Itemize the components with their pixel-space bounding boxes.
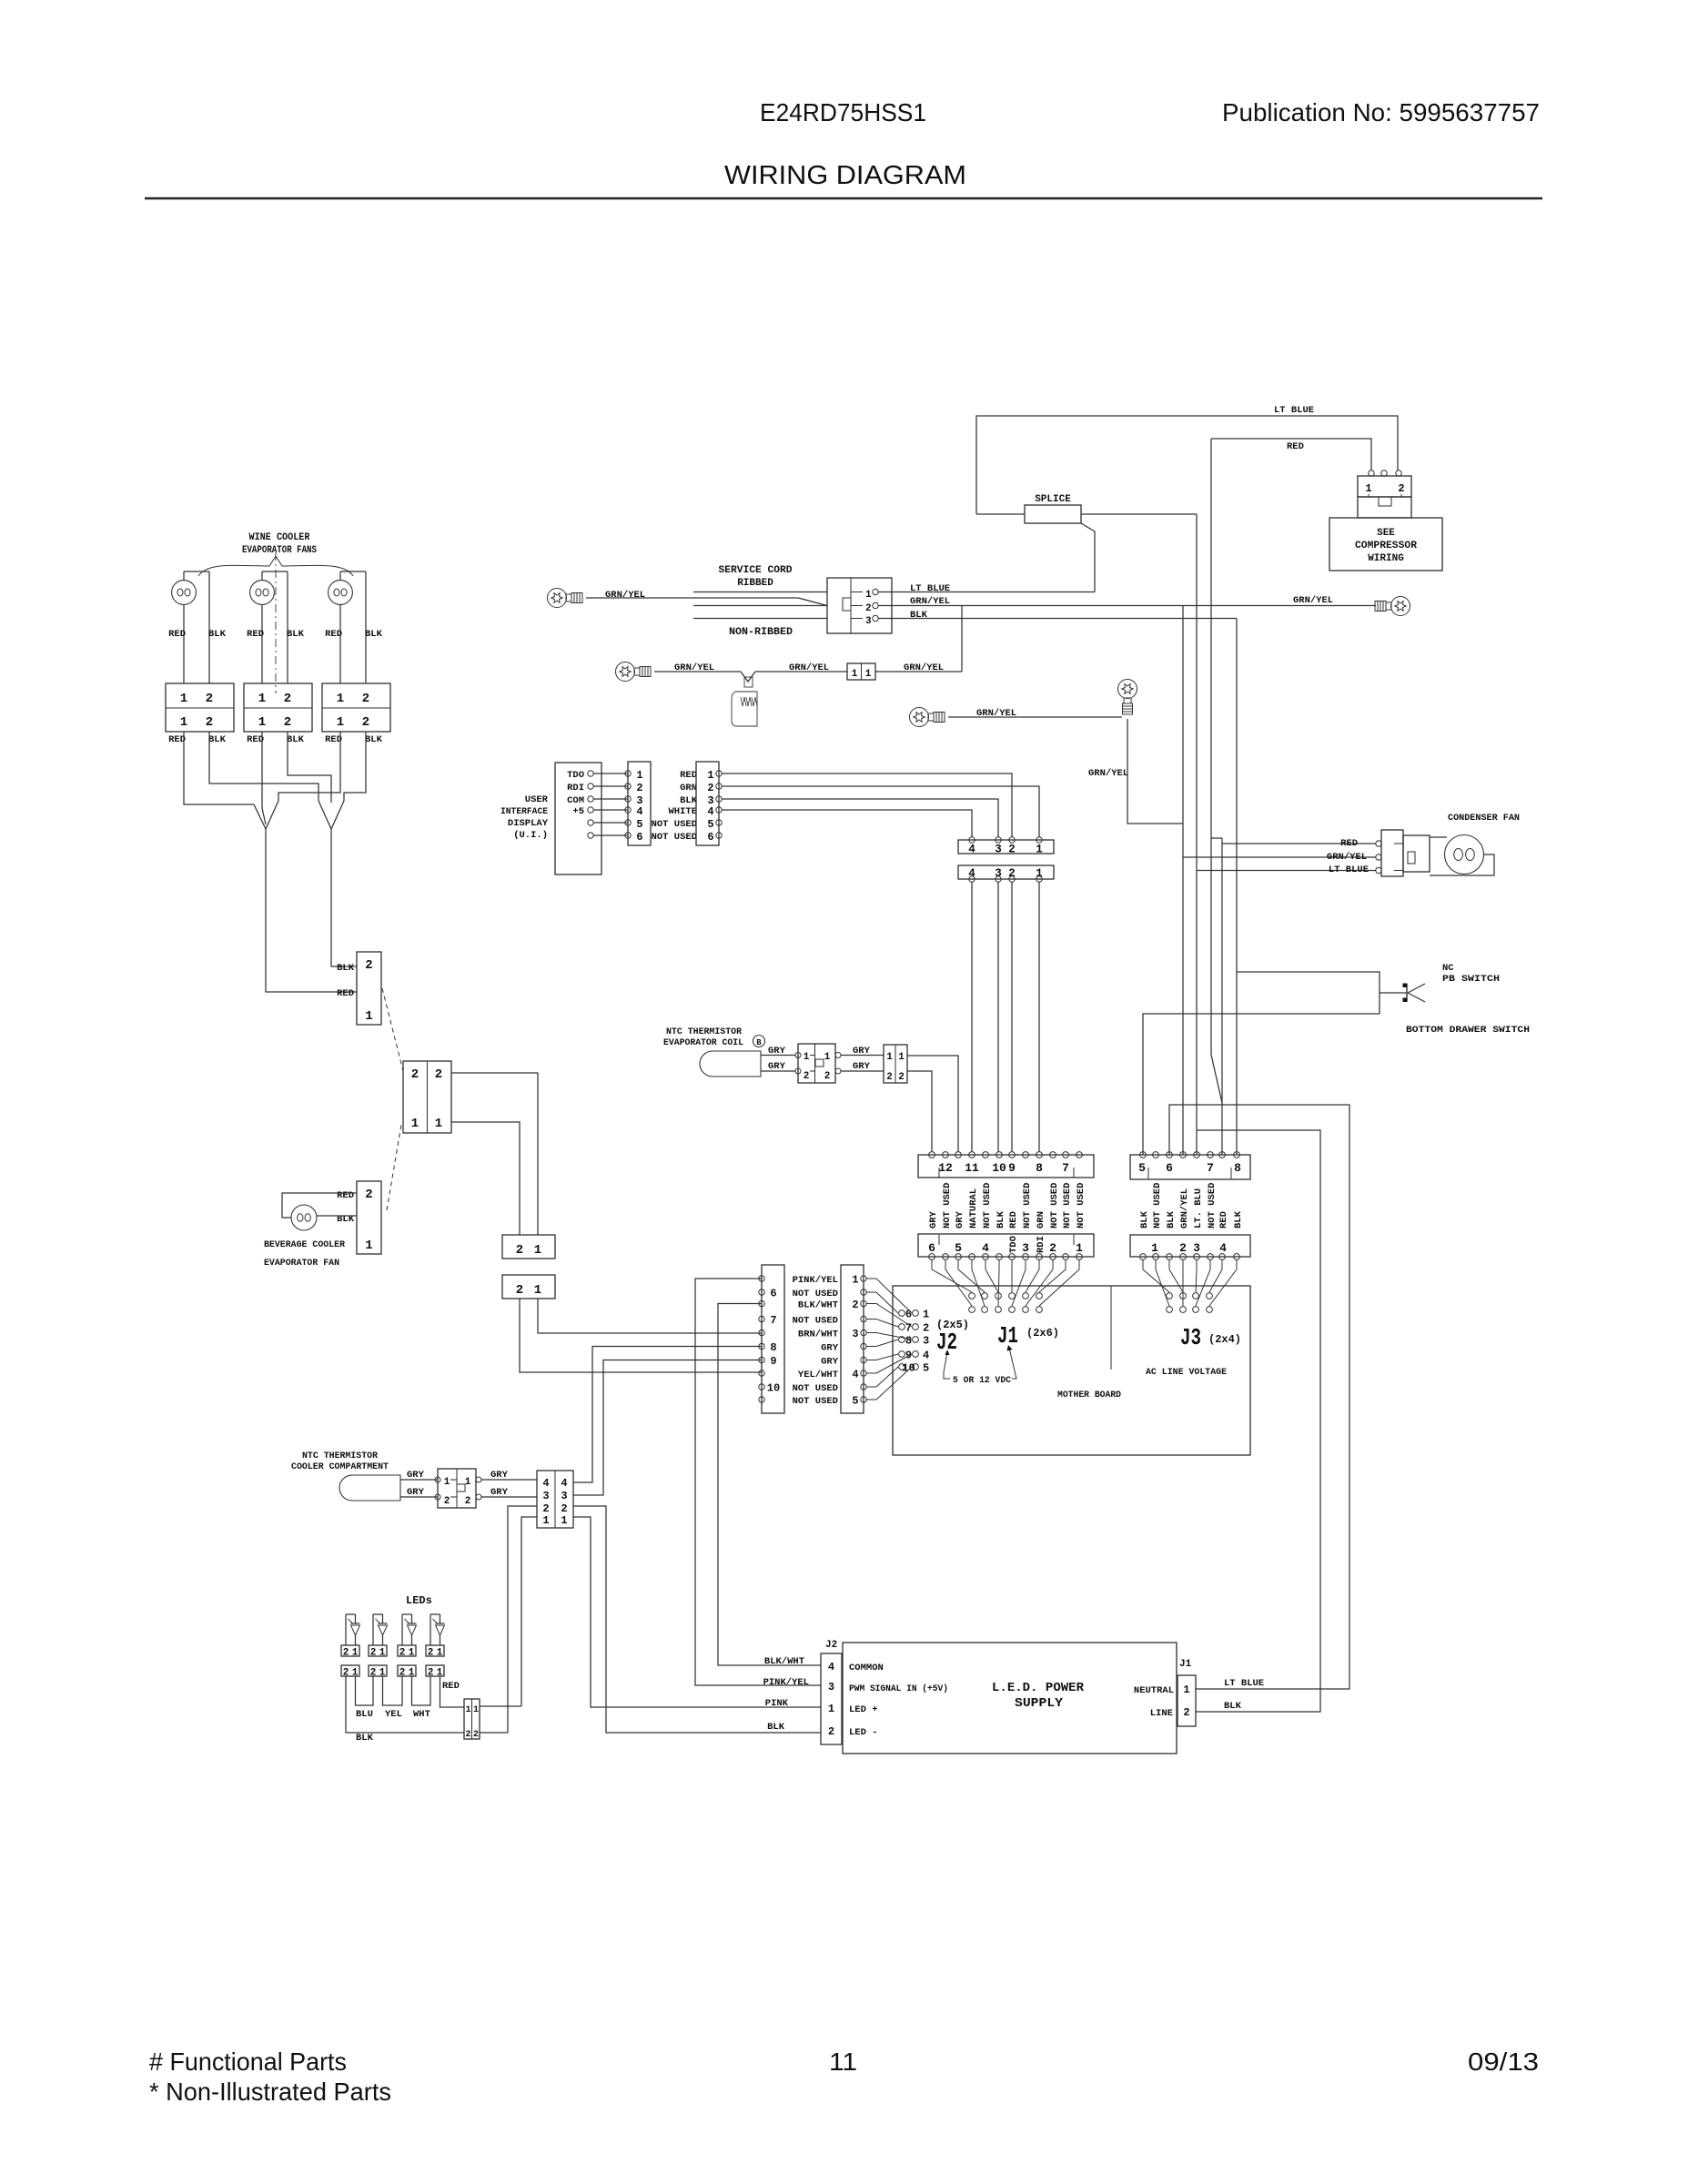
svg-text:1: 1 (411, 1117, 419, 1131)
pin circle J1 strip bottom 6 (996, 1254, 1003, 1260)
svg-text:BLK: BLK (337, 963, 355, 974)
svg-text:NOT USED: NOT USED (1152, 1183, 1163, 1228)
svg-text:2: 2 (923, 1322, 929, 1335)
pin circle J3 header (1207, 1293, 1213, 1299)
svg-text:GRY: GRY (853, 1061, 871, 1072)
thermistor bulb evaporator coil (700, 1051, 761, 1077)
connector 2/1 (beverage cooler fan) (357, 1181, 381, 1254)
wire 4321 right row2 down to LED supply pin2 (573, 1506, 821, 1733)
svg-text:1: 1 (534, 1243, 541, 1258)
pin circle board side (861, 1316, 866, 1321)
connector pair 2-2/1-1 (fan circuit junction) (403, 1061, 451, 1133)
svg-text:BLK: BLK (680, 795, 698, 806)
svg-text:1: 1 (898, 1052, 905, 1063)
wire LED 1-1 to 4321 (480, 1705, 521, 1707)
wire UI RED to pin2 (722, 773, 1012, 837)
svg-text:10: 10 (992, 1161, 1006, 1175)
wire strip to J1 header (1039, 1260, 1066, 1293)
svg-text:BLK: BLK (1139, 1210, 1150, 1228)
svg-text:2: 2 (473, 1730, 479, 1740)
pin circle J1 strip bottom 8 (1023, 1254, 1029, 1260)
svg-text:1: 1 (365, 1009, 372, 1024)
pin circle J1 strip top 3 (955, 1152, 962, 1158)
connector pair CN2 (fan 2) (244, 683, 312, 732)
svg-text:2: 2 (365, 958, 372, 973)
svg-text:11: 11 (965, 1161, 979, 1175)
wire GRN/YEL condenser branch (1183, 856, 1376, 858)
svg-text:1: 1 (444, 1477, 450, 1488)
UI pin circle (588, 771, 593, 776)
svg-text:+5: +5 (572, 806, 584, 817)
wire UI pin (593, 785, 628, 787)
svg-text:2: 2 (852, 1299, 858, 1311)
pin circle J1 header (1009, 1307, 1016, 1313)
svg-text:6: 6 (928, 1241, 935, 1255)
wire UI BLK to pin3 (722, 799, 998, 837)
wire LED RED to 1-1 (440, 1676, 465, 1707)
svg-text:YEL/WHT: YEL/WHT (798, 1370, 838, 1380)
wire strip to J1 header (1011, 1260, 1013, 1293)
svg-text:RED: RED (168, 629, 186, 640)
wire LT BLUE vertical to J3 (1196, 514, 1198, 1155)
pin circle J1 header (1036, 1293, 1043, 1299)
pin circle J1 strip top 1 (929, 1152, 935, 1158)
pin circle J3 strip bottom 2 (1153, 1254, 1159, 1260)
connector 2-1 box A (502, 1235, 555, 1259)
svg-text:1: 1 (1076, 1241, 1083, 1255)
pin circle J1 header (1036, 1307, 1043, 1313)
svg-text:TDO: TDO (1008, 1236, 1019, 1253)
pin circle J2 header 2 (913, 1324, 919, 1330)
svg-text:RDI: RDI (1036, 1236, 1046, 1253)
svg-text:RED: RED (168, 734, 186, 745)
box L.E.D. power supply (843, 1643, 1177, 1754)
pin circle J1 strip bottom 1 (929, 1254, 935, 1260)
svg-text:B: B (756, 1038, 762, 1047)
pin circle J1 header (996, 1307, 1002, 1313)
svg-text:2: 2 (362, 715, 369, 730)
wire LT BLUE top run (976, 416, 1398, 514)
wire 4321 left row2 down to LED 2-2 (508, 1506, 537, 1733)
svg-text:EVAPORATOR COIL: EVAPORATOR COIL (663, 1037, 743, 1048)
svg-text:LINE: LINE (1150, 1708, 1173, 1719)
wire UI GRN to pin1 (722, 786, 1039, 837)
svg-text:2: 2 (516, 1283, 523, 1298)
svg-text:9: 9 (1008, 1161, 1016, 1175)
svg-text:GRN/YEL: GRN/YEL (605, 590, 645, 601)
svg-text:1: 1 (1151, 1241, 1158, 1255)
pin circle J1 strip bottom 2 (943, 1254, 949, 1260)
wire UI harness down to J1 strip (1038, 882, 1040, 1152)
pin circle J1 strip top 10 (1050, 1152, 1056, 1158)
svg-text:(2x6): (2x6) (1026, 1327, 1059, 1340)
svg-text:GRY: GRY (853, 1046, 871, 1057)
svg-text:8: 8 (770, 1341, 776, 1354)
svg-text:WINE COOLER: WINE COOLER (249, 532, 310, 543)
svg-text:GRY: GRY (821, 1343, 839, 1354)
svg-text:RED: RED (1008, 1211, 1019, 1228)
wire BLK bus down to fan connector (331, 829, 357, 966)
svg-text:WHT: WHT (413, 1709, 430, 1720)
svg-text:1: 1 (923, 1309, 929, 1321)
svg-text:PWM SIGNAL IN (+5V): PWM SIGNAL IN (+5V) (849, 1683, 948, 1694)
svg-text:NOT USED: NOT USED (1076, 1183, 1087, 1228)
wire strip to J3 header (1209, 1260, 1237, 1307)
merge funnel BLK (318, 801, 331, 829)
connector LED 2 lower (369, 1665, 387, 1676)
svg-text:BLK: BLK (365, 734, 383, 745)
wire strip to J1 header (1026, 1260, 1039, 1293)
svg-text:NC: NC (1442, 963, 1454, 974)
svg-text:LT BLUE: LT BLUE (1274, 405, 1314, 416)
svg-text:GRY: GRY (490, 1470, 509, 1481)
svg-text:RED: RED (337, 988, 354, 999)
svg-text:1: 1 (828, 1703, 834, 1715)
svg-text:COMPRESSOR: COMPRESSOR (1355, 541, 1417, 551)
pin circle J1 strip top 4 (969, 1152, 975, 1158)
svg-text:1: 1 (886, 1052, 893, 1063)
svg-text:NOT USED: NOT USED (652, 832, 697, 843)
pin circle J1 header (1009, 1293, 1016, 1299)
svg-text:1: 1 (435, 1117, 442, 1131)
wire service ground to connector (586, 597, 798, 599)
svg-text:1: 1 (337, 692, 344, 706)
wire strip to J3 header (1209, 1260, 1222, 1293)
UI pin circle (588, 796, 593, 802)
pin circle LED harness (759, 1370, 764, 1376)
wire BLK fan1 to merge (209, 732, 318, 801)
pin circle 4 (969, 876, 975, 882)
wire connector to J2 header (866, 1279, 912, 1313)
svg-text:NOT USED: NOT USED (1207, 1183, 1218, 1228)
wires GRY thermistor (761, 1055, 795, 1057)
svg-text:NOT USED: NOT USED (793, 1289, 838, 1299)
wire RED drop to J3 (1221, 838, 1223, 1155)
svg-text:5: 5 (923, 1362, 929, 1375)
fan motor M1 (wine cooler evaporator fan 1) (184, 571, 209, 572)
connector J2 board side 10-pin (841, 1265, 864, 1413)
wire UI harness down to J1 strip (997, 882, 999, 1152)
wire RED fan3 to merge (278, 732, 340, 801)
svg-text:1: 1 (465, 1477, 471, 1488)
splice wrap symbol (744, 677, 753, 687)
pin circle J1 header (1023, 1293, 1029, 1299)
wire GRY row to cooler thermistor pin3 (573, 1360, 762, 1496)
svg-text:SERVICE CORD: SERVICE CORD (719, 565, 793, 576)
wire GRN/YEL row3 (948, 716, 1122, 718)
wire vertical screw to bus (1127, 719, 1183, 824)
pin circle J2 header 6 (899, 1310, 905, 1317)
connector strip 1-2-3-4 (1130, 1235, 1250, 1257)
wire GRN/YEL row2 (654, 671, 741, 672)
wire strip to J1 header (998, 1260, 999, 1307)
svg-text:3: 3 (828, 1681, 834, 1694)
svg-text:2: 2 (399, 1648, 406, 1659)
svg-text:PINK/YEL: PINK/YEL (763, 1677, 809, 1688)
svg-text:BLK: BLK (287, 734, 305, 745)
connector LED 1 lower (341, 1665, 359, 1676)
svg-text:6: 6 (1166, 1161, 1173, 1175)
switch NC PB switch (1406, 985, 1408, 1001)
connector cooler thermistor inline (435, 1477, 440, 1482)
svg-text:GRN: GRN (680, 783, 697, 794)
pin circle J1 strip bottom 4 (969, 1254, 975, 1260)
wire strip to J1 header (958, 1260, 985, 1293)
pin circle J2 header 5 (913, 1364, 919, 1370)
svg-text:3: 3 (1022, 1241, 1029, 1255)
svg-text:NOT USED: NOT USED (1022, 1183, 1033, 1228)
connector 1-1/2-2 (884, 1045, 907, 1083)
svg-text:LT. BLU: LT. BLU (1193, 1188, 1204, 1228)
svg-text:5: 5 (707, 818, 713, 831)
connector service cord 3-pin (827, 578, 892, 633)
svg-text:* Non-Illustrated Parts: * Non-Illustrated Parts (149, 2078, 391, 2106)
svg-text:GRN: GRN (1036, 1211, 1046, 1228)
pin circle J3 strip top 8 (1234, 1152, 1240, 1158)
svg-text:2: 2 (542, 1502, 549, 1515)
svg-text:BLK: BLK (365, 629, 383, 640)
wire row2 to bus (875, 671, 962, 672)
wire UI pin (593, 773, 628, 774)
connector 4321 dual (537, 1471, 573, 1528)
wire connector to J2 header (866, 1354, 898, 1360)
pin circle J2 header 7 (899, 1324, 905, 1330)
svg-text:GRN/YEL: GRN/YEL (1088, 768, 1128, 779)
wire junction pin2 to box A (451, 1073, 538, 1235)
connector 4-3-2-1 upper (958, 840, 1054, 854)
pin circle LED harness (759, 1357, 764, 1362)
svg-text:4: 4 (982, 1241, 989, 1255)
wire connector to J2 header (866, 1319, 898, 1328)
svg-text:LT BLUE: LT BLUE (910, 583, 950, 594)
wire BLK vertical to J3 (1236, 619, 1238, 1156)
wire PINK/YEL drop to LED supply (695, 1279, 821, 1685)
wire box B pin1 to J2 connector BRN/WHT (538, 1299, 762, 1333)
UI pin circle (588, 820, 593, 825)
svg-text:RED: RED (1218, 1211, 1229, 1228)
wire UI pin (593, 822, 628, 824)
wire RED condenser branch (1222, 843, 1376, 844)
svg-text:1: 1 (534, 1283, 541, 1298)
svg-text:NOT USED: NOT USED (982, 1183, 993, 1228)
connector LED supply J1 (1178, 1675, 1196, 1726)
svg-text:WIRING DIAGRAM: WIRING DIAGRAM (724, 161, 966, 190)
svg-text:NEUTRAL: NEUTRAL (1134, 1685, 1174, 1696)
wire strip to J1 header (932, 1260, 972, 1293)
wire connector to J2 header (866, 1304, 912, 1328)
svg-text:EVAPORATOR FAN: EVAPORATOR FAN (264, 1258, 339, 1269)
wire PB switch loop (1143, 972, 1380, 1155)
pin circle J3 strip top 6 (1208, 1152, 1214, 1158)
svg-text:3: 3 (923, 1335, 929, 1348)
pin circle J3 strip bottom 4 (1180, 1254, 1187, 1260)
svg-text:2: 2 (370, 1648, 377, 1659)
svg-text:1: 1 (1183, 1683, 1189, 1696)
svg-text:LED +: LED + (849, 1704, 878, 1715)
svg-text:BLK: BLK (1224, 1701, 1242, 1712)
wire strip to J3 header (1196, 1260, 1197, 1293)
svg-text:PINK: PINK (765, 1698, 789, 1709)
svg-text:BLK/WHT: BLK/WHT (764, 1656, 804, 1667)
wire BLK LED supply (1196, 1130, 1320, 1712)
wire connector to J2 header (866, 1367, 898, 1387)
pin circle LED harness (759, 1300, 764, 1306)
brace over fans (198, 556, 353, 576)
connector condenser fan (1376, 841, 1381, 846)
fan motor M2 (wine cooler evaporator fan 2) (262, 571, 288, 572)
svg-text:NOT USED: NOT USED (652, 819, 697, 830)
svg-text:4: 4 (852, 1369, 858, 1381)
svg-text:AC LINE VOLTAGE: AC LINE VOLTAGE (1146, 1367, 1227, 1378)
svg-text:1: 1 (824, 1052, 831, 1063)
svg-text:(U.I.): (U.I.) (513, 830, 548, 841)
svg-text:NOT USED: NOT USED (1062, 1183, 1073, 1228)
pin circle 4 (969, 837, 975, 843)
svg-text:NATURAL: NATURAL (968, 1188, 979, 1228)
svg-text:BLK: BLK (1166, 1210, 1177, 1228)
wire LED BLK to 2-2 (346, 1676, 464, 1733)
svg-text:GRN/YEL: GRN/YEL (1327, 852, 1367, 863)
svg-text:2: 2 (206, 692, 213, 706)
wire strip to J3 header (1169, 1260, 1183, 1293)
svg-text:2: 2 (804, 1071, 810, 1082)
svg-text:4: 4 (542, 1477, 549, 1490)
svg-text:RED: RED (442, 1681, 460, 1692)
UI pin circle (588, 833, 593, 838)
svg-text:2: 2 (284, 692, 291, 706)
svg-text:NOT USED: NOT USED (793, 1316, 838, 1327)
svg-text:2: 2 (828, 1725, 834, 1738)
svg-text:7: 7 (770, 1314, 776, 1327)
pin circle J1 header (969, 1307, 975, 1313)
pin circle J1 strip bottom 3 (955, 1254, 962, 1260)
svg-text:4: 4 (707, 805, 713, 818)
pin circle J3 strip top 4 (1180, 1152, 1187, 1158)
wire connector to J2 header (866, 1367, 912, 1400)
pin circle 1 (1036, 837, 1042, 843)
pin circle J3 strip top 1 (1140, 1152, 1147, 1158)
dashed mate line lower (387, 1125, 401, 1210)
svg-text:BLK: BLK (208, 734, 227, 745)
svg-text:RED: RED (247, 734, 264, 745)
wire UI pin (593, 809, 628, 811)
svg-text:1: 1 (258, 692, 266, 706)
svg-text:BRN/WHT: BRN/WHT (798, 1330, 838, 1340)
circle B designator (753, 1036, 765, 1047)
svg-text:2: 2 (561, 1502, 567, 1515)
svg-text:GRY: GRY (768, 1046, 786, 1057)
wire RED jog (1211, 837, 1222, 839)
svg-text:SPLICE: SPLICE (1035, 494, 1071, 505)
svg-text:WIRING: WIRING (1368, 553, 1404, 564)
svg-text:8: 8 (1234, 1161, 1241, 1175)
pin circle J1 header (1023, 1307, 1029, 1313)
pin circle J1 strip top 8 (1023, 1152, 1029, 1158)
svg-text:2: 2 (886, 1072, 893, 1083)
wire strip to J3 header (1143, 1260, 1169, 1293)
svg-text:1: 1 (180, 692, 187, 706)
wires GRY cooler thermistor (400, 1479, 438, 1481)
pin circle J3 strip bottom 6 (1208, 1254, 1214, 1260)
svg-text:L.E.D. POWER: L.E.D. POWER (992, 1681, 1085, 1695)
svg-text:1: 1 (542, 1514, 549, 1527)
svg-text:J2: J2 (825, 1640, 837, 1651)
wire strip to J3 header (1196, 1260, 1210, 1307)
svg-text:2: 2 (1183, 1706, 1189, 1719)
header rule (145, 197, 1542, 200)
UI pin circle (588, 784, 593, 789)
svg-text:4: 4 (828, 1661, 834, 1673)
svg-text:1: 1 (180, 715, 187, 730)
wire RED bus down to fan connector (266, 829, 357, 992)
wire connector to J2 header (866, 1333, 912, 1340)
svg-text:1: 1 (561, 1514, 567, 1527)
pin circle LED harness (759, 1384, 764, 1390)
svg-text:1: 1 (852, 1274, 858, 1287)
wire RED beverage fan (282, 1193, 357, 1218)
svg-text:COOLER COMPARTMENT: COOLER COMPARTMENT (291, 1461, 389, 1472)
pin circle J1 strip top 12 (1076, 1152, 1083, 1158)
svg-text:LEDs: LEDs (406, 1594, 432, 1607)
connector LED 2 upper (369, 1645, 387, 1656)
svg-text:1: 1 (337, 715, 344, 730)
wire splice to LT BLUE vertical (1081, 513, 1197, 515)
pin circle J3 header (1167, 1307, 1173, 1313)
connector LED 3 lower (398, 1665, 416, 1676)
dashed mate line upper (382, 988, 403, 1071)
pin circle 3 (996, 837, 1001, 843)
wire box B pin2 to J2 connector YEL/WHT (520, 1299, 762, 1372)
wire GRY to J1 strip pin 11 (907, 1056, 958, 1152)
svg-text:BLK: BLK (208, 629, 227, 640)
svg-text:2: 2 (898, 1072, 905, 1083)
pin circle J1 header (982, 1293, 988, 1299)
wire LT BLUE service pin1 (878, 591, 1095, 593)
connector harness side 6-pin (696, 762, 719, 845)
LED D2 (373, 1613, 383, 1615)
connector LED 1 upper (341, 1645, 359, 1656)
wire RED diagonal (1211, 1055, 1222, 1103)
svg-text:LT BLUE: LT BLUE (1224, 1678, 1264, 1689)
pin circle J1 strip top 9 (1036, 1152, 1043, 1158)
pin circle J3 header (1180, 1307, 1187, 1313)
svg-text:BLU: BLU (356, 1709, 373, 1720)
wire 4321 right row1 down to LED supply pin1 (573, 1517, 821, 1707)
svg-text:2: 2 (707, 782, 713, 794)
svg-text:GRN/YEL: GRN/YEL (1293, 595, 1333, 606)
svg-text:4: 4 (636, 805, 642, 818)
pin circle J3 strip top 3 (1167, 1152, 1173, 1158)
wire LED 2-2 to 4321 (480, 1732, 508, 1734)
wire GRY to J1 strip pin 12 (907, 1071, 932, 1152)
svg-text:GRN/YEL: GRN/YEL (910, 596, 950, 607)
box mother board (893, 1286, 1250, 1455)
wire RED top run (1211, 439, 1371, 470)
svg-text:NOT USED: NOT USED (793, 1396, 838, 1407)
wires GRY to 1-1 connector (841, 1055, 884, 1057)
svg-text:BLK/WHT: BLK/WHT (798, 1300, 838, 1311)
pin circle J2 header 10 (899, 1364, 905, 1370)
svg-text:2: 2 (284, 715, 291, 730)
pin circle J2 header 4 (913, 1351, 919, 1358)
connector compressor 2-pin (1369, 470, 1374, 476)
svg-text:2: 2 (365, 1188, 372, 1202)
svg-text:LT BLUE: LT BLUE (1329, 864, 1369, 875)
connector strip 12-11-10-9-8-7 (918, 1155, 1094, 1178)
wire connector to J2 header (866, 1340, 898, 1347)
pin circle 2 (1009, 837, 1015, 843)
svg-text:BLK: BLK (910, 610, 928, 621)
